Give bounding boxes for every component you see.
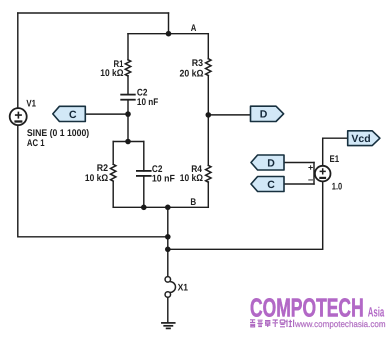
wire node A horizontal bbox=[128, 33, 208, 35]
source E1 bbox=[315, 166, 331, 182]
resistor R3 bbox=[206, 59, 211, 76]
svg-text:AC 1: AC 1 bbox=[27, 138, 45, 149]
node junction A bbox=[166, 31, 172, 37]
wire top drop to node bbox=[168, 13, 170, 34]
wire R1 top bbox=[127, 34, 129, 60]
wire E1 top to Vcd bbox=[323, 138, 348, 166]
svg-text:www.compotechasia.com: www.compotechasia.com bbox=[294, 319, 385, 329]
svg-text:10 kΩ: 10 kΩ bbox=[85, 173, 108, 184]
svg-text:A: A bbox=[191, 23, 197, 34]
wire V1 bottom rail bbox=[18, 125, 168, 237]
node junction parallel top bbox=[125, 139, 131, 145]
svg-text:C: C bbox=[69, 109, 77, 121]
ground bbox=[162, 323, 175, 329]
svg-text:10 kΩ: 10 kΩ bbox=[100, 68, 123, 79]
wire R2 branch top bbox=[112, 142, 114, 165]
wire C tag to E1 bbox=[284, 183, 314, 185]
svg-text:V1: V1 bbox=[26, 98, 36, 109]
svg-text:20 kΩ: 20 kΩ bbox=[180, 68, 204, 79]
svg-text:B: B bbox=[190, 197, 196, 208]
capacitor C2 upper bbox=[121, 95, 135, 100]
node junction D bbox=[206, 112, 212, 118]
svg-text:Vcd: Vcd bbox=[351, 133, 370, 145]
tag D right (node D) bbox=[251, 106, 284, 121]
svg-text:10 nF: 10 nF bbox=[137, 97, 159, 108]
tag Vcd right bbox=[348, 131, 380, 146]
svg-text:–: – bbox=[308, 174, 313, 185]
svg-text:C: C bbox=[267, 179, 275, 191]
svg-text:D: D bbox=[267, 157, 275, 169]
svg-text:10 kΩ: 10 kΩ bbox=[180, 173, 203, 184]
wire top horizontal bbox=[18, 12, 169, 14]
wire R4 bottom bbox=[207, 182, 209, 207]
tag D left (E1 control +) bbox=[251, 155, 284, 170]
svg-text:D: D bbox=[260, 109, 268, 121]
wire to tag C bbox=[85, 113, 128, 115]
svg-text:COMPOTECH: COMPOTECH bbox=[250, 292, 364, 322]
wire top-left vertical bbox=[17, 13, 19, 108]
wire C2 down bbox=[127, 100, 129, 142]
wire B down to switch bbox=[167, 207, 169, 276]
source V1 bbox=[10, 108, 27, 125]
wire R3 to R4 bbox=[207, 76, 209, 166]
wire R1 to C2 bbox=[127, 76, 129, 95]
wire C2b branch top bbox=[143, 142, 145, 171]
svg-text:E1: E1 bbox=[330, 154, 340, 165]
wire C2b branch bottom bbox=[143, 176, 145, 207]
svg-text:Asia: Asia bbox=[368, 304, 385, 319]
logo chinese pseudo-glyphs bbox=[250, 320, 294, 327]
resistor R1 bbox=[125, 60, 130, 76]
node junction C2b bottom bbox=[141, 205, 147, 211]
capacitor C2 lower bbox=[137, 171, 151, 176]
svg-text:R3: R3 bbox=[192, 58, 203, 69]
tag C left (E1 control -) bbox=[251, 177, 284, 192]
svg-text:+: + bbox=[308, 162, 313, 172]
wire E1 return bbox=[168, 181, 323, 249]
resistor R2 bbox=[110, 164, 115, 181]
tag C left (node C) bbox=[53, 106, 86, 121]
svg-text:1.0: 1.0 bbox=[332, 181, 342, 192]
wire R3 top bbox=[207, 34, 209, 59]
node junction C bbox=[125, 111, 131, 117]
wire node D horizontal bbox=[208, 114, 250, 116]
wire switch to ground bbox=[167, 297, 169, 323]
node junction E1 return bbox=[165, 247, 171, 253]
svg-text:10 nF: 10 nF bbox=[152, 174, 175, 185]
svg-text:X1: X1 bbox=[178, 282, 189, 293]
wire E1 control bar bbox=[313, 163, 315, 185]
wire R2 branch bottom bbox=[112, 181, 114, 207]
wire parallel top bbox=[113, 141, 144, 143]
node junction left rail bbox=[165, 234, 171, 240]
wire D tag to E1 bbox=[284, 162, 314, 164]
switch X1 bbox=[165, 277, 175, 298]
wire node B horizontal bbox=[113, 206, 208, 208]
resistor R4 bbox=[206, 165, 211, 182]
node junction B bbox=[165, 205, 171, 211]
